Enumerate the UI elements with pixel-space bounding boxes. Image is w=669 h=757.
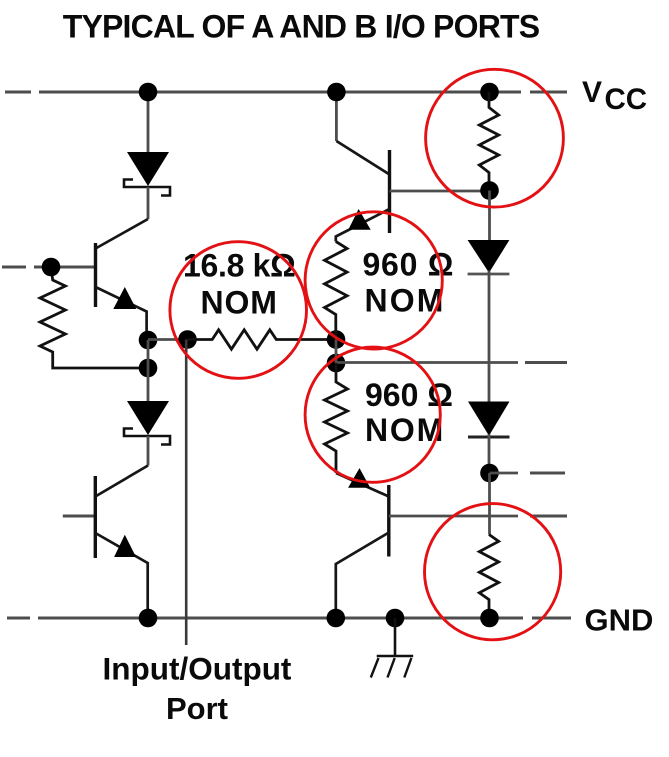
resistor R4 (pull-up, circled) [479, 92, 498, 190]
svg-text:GND: GND [585, 603, 654, 638]
node dot Q1 base / left rail [42, 258, 61, 277]
node dot I/O port [178, 330, 197, 349]
wire CR1 cathode to Q1 collector [96, 219, 149, 249]
red highlight circle around R5 [425, 504, 561, 640]
wire GND rail right dash [532, 617, 571, 620]
wire left input rail dash [2, 266, 26, 269]
svg-text:Port: Port [166, 691, 228, 726]
wire GND rail main [38, 617, 523, 620]
node dot R1 right end [327, 330, 346, 349]
red highlight circle around R3 [305, 347, 440, 482]
wire VCC rail main [39, 91, 521, 94]
resistor R6 (left, Q1 base-emitter) [40, 267, 148, 368]
svg-text:CC: CC [605, 83, 648, 116]
wire R4 to D1 anode [488, 191, 491, 241]
wire stub right of D2 cathode dot [490, 472, 519, 475]
wire between emitter junction and CR2 anode [147, 340, 150, 368]
wire R3 node horizontal to right [336, 361, 518, 364]
node dot GND rail / ground symbol [386, 609, 405, 628]
red highlight circle around R4 [426, 69, 564, 207]
resistor R2 960 Ohm (upper vertical) [324, 242, 347, 340]
node dot GND rail / Q4 collector [327, 609, 346, 628]
transistor Q4 (lower middle) [336, 468, 567, 618]
node dot GND rail / Q3 emitter [139, 609, 158, 628]
zener diode CR1 [124, 152, 170, 219]
wire Q2 collector drop from VCC rail [335, 92, 338, 141]
node dot VCC rail / CR1 [139, 83, 158, 102]
wire I/O port vertical line [185, 340, 188, 646]
resistor R3 960 Ohm (lower vertical) [325, 363, 348, 473]
zener diode CR2 [124, 368, 170, 466]
svg-text:Input/Output: Input/Output [103, 651, 292, 687]
node dot R3 top [327, 354, 346, 373]
resistor R1 16.8 kOhm (horizontal) [188, 330, 337, 349]
diode D1 [468, 240, 510, 402]
net label VCC [582, 76, 647, 116]
resistor R5 (pull-down, circled) [479, 535, 498, 619]
wire D2 cathode down to R5 [488, 473, 491, 535]
transistor Q3 (lower left) [95, 476, 147, 618]
wire left input rail to Q1 base [34, 266, 95, 269]
wire GND rail left dash [7, 617, 30, 620]
node dot GND right column [480, 609, 499, 628]
diode D2 [468, 402, 510, 474]
wire VCC rail right dash [530, 91, 567, 94]
red highlight circle around R1 [170, 242, 307, 379]
wire between R1 node and R3 node [335, 340, 338, 364]
node dot D2 cathode [480, 464, 499, 483]
svg-text:TYPICAL OF A AND B I/O PORTS: TYPICAL OF A AND B I/O PORTS [63, 9, 540, 45]
wire VCC rail left dash [5, 91, 31, 94]
wire CR2 cathode to Q3 collector [95, 466, 148, 497]
wire dash right of it [525, 361, 567, 364]
node dot VCC right column [480, 83, 499, 102]
wire emitter junction to I/O node [148, 338, 188, 341]
wire zener CR1 anode drop from VCC rail [147, 92, 150, 152]
node dot zener CR2 anode [139, 359, 158, 378]
transistor Q2 (upper middle) [336, 141, 490, 242]
wire Q3 base stub [63, 515, 95, 518]
node dot Q1 emitter junction [139, 331, 158, 350]
svg-text:V: V [582, 76, 602, 109]
svg-text:NOM: NOM [201, 285, 278, 321]
ground [371, 618, 413, 678]
node dot R4 bottom / Q2 base [480, 181, 499, 200]
wire dash right of D2 cathode dot [530, 472, 565, 475]
transistor Q1 (upper left) [96, 243, 147, 332]
node dot VCC rail / Q2 collector [327, 83, 346, 102]
red highlight circle around R2 [305, 212, 442, 349]
